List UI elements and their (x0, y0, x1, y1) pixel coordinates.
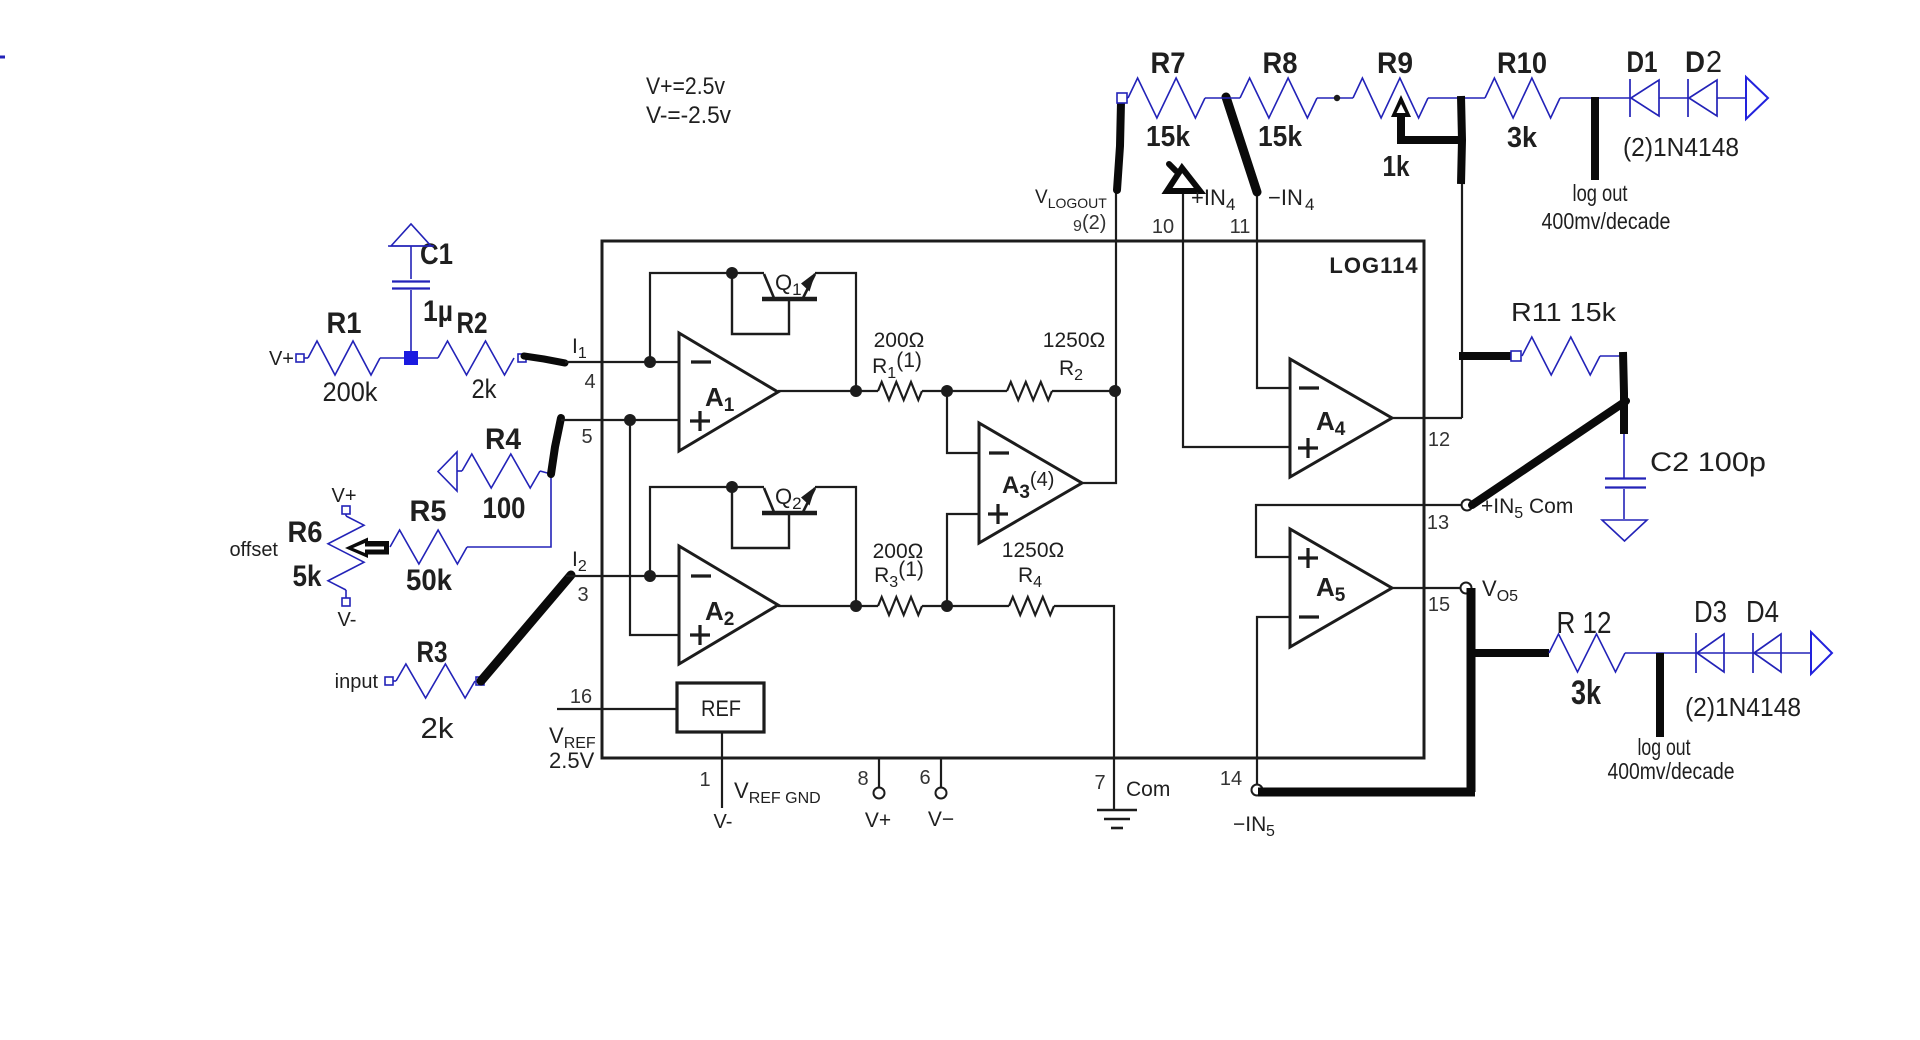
svg-text:log out: log out (1638, 734, 1691, 760)
transistor Q2 (762, 511, 817, 516)
svg-text:3: 3 (577, 584, 588, 606)
svg-text:(2)1N4148: (2)1N4148 (1685, 692, 1801, 722)
svg-text:13: 13 (1427, 512, 1449, 534)
power V+ arrow (above C1) (391, 224, 431, 246)
wire (418, 357, 438, 359)
svg-text:4: 4 (584, 371, 595, 393)
wire (947, 391, 979, 453)
svg-text:15k: 15k (1258, 121, 1303, 153)
diode D1 (1629, 79, 1631, 117)
resistor R3 (396, 664, 475, 698)
resistor R2 (1250 ohm internal) (1007, 382, 1052, 400)
svg-text:V-: V- (338, 609, 357, 631)
svg-text:−IN: −IN (1268, 185, 1303, 210)
node junction (1109, 385, 1121, 397)
svg-text:+IN: +IN (1191, 185, 1226, 210)
resistor R8 (1240, 78, 1317, 118)
svg-text:I2: I2 (572, 548, 587, 575)
wire (1127, 97, 1128, 99)
svg-text:5: 5 (581, 426, 592, 448)
svg-text:2: 2 (1706, 44, 1722, 79)
svg-text:VLOGOUT: VLOGOUT (1035, 187, 1107, 211)
node junction (850, 385, 862, 397)
node junction (644, 356, 656, 368)
svg-text:R5: R5 (410, 495, 447, 528)
svg-text:offset: offset (229, 539, 278, 561)
svg-text:2k: 2k (472, 374, 497, 404)
svg-text:I1: I1 (572, 335, 587, 362)
svg-text:2k: 2k (421, 713, 455, 745)
wire (1183, 241, 1290, 447)
svg-text:R2: R2 (457, 307, 488, 340)
svg-text:R1(1): R1(1) (872, 349, 922, 382)
potentiometer R6 (345, 514, 347, 516)
svg-text:1µ: 1µ (423, 295, 453, 328)
wire (1560, 97, 1630, 99)
wire (1625, 652, 1812, 654)
wire (815, 487, 856, 606)
svg-text:D1: D1 (1627, 46, 1658, 79)
wire (922, 390, 1007, 392)
svg-text:V+: V+ (865, 809, 891, 832)
wire (1659, 97, 1688, 99)
potentiometer R9 (1353, 78, 1428, 118)
node junction (726, 481, 738, 493)
svg-text:14: 14 (1220, 768, 1242, 790)
svg-text:input: input (335, 671, 379, 693)
svg-text:R11 15k: R11 15k (1511, 297, 1617, 327)
wire R6 wiper arrow (345, 538, 389, 559)
svg-text:5k: 5k (293, 560, 322, 593)
svg-text:V+=2.5v: V+=2.5v (646, 73, 725, 100)
wire (721, 732, 723, 808)
wire (1623, 489, 1625, 519)
node output arrow terminal (1811, 632, 1832, 674)
node R4 left arrow terminal (438, 452, 457, 491)
svg-text:A3(4): A3(4) (1002, 469, 1054, 503)
IC LOG114 outline (602, 241, 1424, 758)
wire (524, 356, 565, 363)
svg-text:9: 9 (1073, 218, 1082, 235)
REF block (677, 683, 764, 732)
svg-text:10: 10 (1152, 216, 1174, 238)
wire (1257, 617, 1290, 785)
svg-text:REF: REF (701, 696, 741, 721)
node R1-R2-C1 junction (404, 351, 418, 365)
svg-text:4: 4 (1305, 195, 1314, 214)
wire (1472, 401, 1626, 505)
resistor R3 (200 ohm internal) (878, 597, 922, 615)
wire (551, 418, 561, 474)
svg-text:V-=-2.5v: V-=-2.5v (646, 102, 731, 129)
diode D2 (1687, 79, 1689, 117)
svg-text:3k: 3k (1507, 122, 1538, 154)
svg-text:LOG114: LOG114 (1329, 253, 1418, 278)
svg-text:15k: 15k (1146, 121, 1191, 153)
svg-text:V-: V- (714, 811, 733, 833)
wire (1082, 391, 1116, 483)
node pin 6 V- (940, 758, 942, 787)
svg-text:D: D (1685, 46, 1705, 79)
wire (304, 357, 308, 359)
wire (650, 487, 764, 576)
wire R9 wiper arrow (1397, 112, 1405, 143)
svg-text:7: 7 (1094, 772, 1105, 794)
svg-text:100: 100 (483, 492, 526, 525)
wire (1717, 97, 1746, 99)
svg-text:Q2: Q2 (775, 484, 802, 513)
node junction (941, 600, 953, 612)
node junction (726, 267, 738, 279)
svg-text:R2: R2 (1059, 357, 1083, 384)
op-amp A4 (1290, 359, 1392, 477)
svg-text:+IN5 Com: +IN5 Com (1481, 495, 1573, 522)
svg-text:R3: R3 (417, 636, 448, 669)
svg-text:A2: A2 (705, 596, 734, 630)
node junction (941, 385, 953, 397)
svg-text:(2): (2) (1082, 212, 1106, 234)
wire (732, 492, 789, 548)
diode D3 (1695, 633, 1697, 673)
wire (1257, 241, 1290, 388)
wire (1461, 96, 1462, 184)
capacitor C1 (392, 280, 430, 282)
wire (1623, 352, 1624, 434)
svg-text:R6: R6 (288, 516, 323, 549)
wire (1256, 192, 1258, 241)
svg-text:400mv/decade: 400mv/decade (1608, 758, 1735, 784)
svg-text:3k: 3k (1571, 674, 1601, 712)
svg-text:200k: 200k (323, 377, 378, 407)
svg-text:(2)1N4148: (2)1N4148 (1623, 132, 1739, 162)
resistor R12 (1549, 634, 1625, 672)
wire (1182, 190, 1184, 241)
wire (410, 290, 412, 351)
svg-text:1: 1 (699, 769, 710, 791)
wire (1115, 191, 1117, 391)
node V- terminal (R6 bottom) (342, 598, 350, 606)
transistor Q1 (762, 297, 817, 302)
wire (1117, 102, 1121, 190)
wire (481, 575, 571, 681)
svg-text:A4: A4 (1316, 406, 1346, 440)
node R11 input terminal (1511, 351, 1521, 361)
wire (1205, 97, 1240, 99)
wire (1054, 606, 1114, 758)
resistor R4 (1250 ohm internal) (1009, 597, 1054, 615)
svg-text:400mv/decade: 400mv/decade (1542, 208, 1671, 234)
svg-text:Com: Com (1126, 778, 1170, 801)
resistor R10 (1485, 78, 1560, 118)
node junction (850, 600, 862, 612)
svg-text:R8: R8 (1263, 47, 1298, 80)
wire (947, 514, 979, 606)
svg-text:1250Ω: 1250Ω (1002, 539, 1064, 562)
wire (732, 278, 789, 334)
svg-text:2.5V: 2.5V (549, 748, 595, 773)
wire (1392, 417, 1462, 419)
svg-text:R4: R4 (1018, 564, 1042, 591)
svg-text:1k: 1k (1383, 151, 1411, 183)
wire (410, 246, 412, 279)
svg-text:R9: R9 (1377, 47, 1413, 80)
wire (565, 361, 679, 363)
node R2 output terminal (518, 354, 526, 362)
wire (778, 605, 878, 607)
resistor R5 (390, 530, 467, 564)
svg-text:VREF GND: VREF GND (734, 778, 821, 807)
wire (1467, 588, 1476, 792)
wire (566, 575, 679, 577)
op-amp A2 (679, 546, 778, 664)
resistor R1 (308, 341, 380, 375)
svg-text:8: 8 (857, 768, 868, 790)
svg-text:R4: R4 (485, 423, 521, 456)
svg-text:C2 100p: C2 100p (1650, 447, 1766, 477)
op-amp A1 (679, 333, 778, 451)
wire (1623, 434, 1625, 478)
wire (540, 471, 551, 474)
svg-text:R 12: R 12 (1557, 605, 1612, 640)
node junction (644, 570, 656, 582)
svg-text:16: 16 (570, 686, 592, 708)
wire (561, 419, 679, 421)
svg-text:R10: R10 (1497, 47, 1547, 80)
svg-text:5: 5 (1266, 823, 1275, 840)
svg-text:1250Ω: 1250Ω (1043, 329, 1105, 352)
wire (557, 708, 677, 710)
wire (1600, 355, 1624, 357)
svg-text:log out: log out (1573, 180, 1628, 206)
op-amp A3 (979, 423, 1082, 543)
wire (1428, 97, 1485, 99)
svg-text:A5: A5 (1316, 572, 1346, 606)
node +IN5 Com terminal (1462, 500, 1473, 511)
wire (1226, 97, 1257, 192)
svg-text:D3: D3 (1694, 594, 1727, 629)
wire (1459, 352, 1511, 360)
resistor R2 (438, 341, 514, 375)
node pin 8 V+ (878, 758, 880, 787)
wire (1258, 788, 1475, 797)
svg-text:R1: R1 (327, 307, 362, 340)
node R7 input terminal (1117, 93, 1127, 103)
wire (393, 680, 396, 682)
wire (0, 56, 5, 59)
svg-text:D4: D4 (1746, 594, 1779, 629)
svg-text:4: 4 (1226, 195, 1235, 214)
node junction (624, 414, 636, 426)
svg-text:V+: V+ (269, 348, 294, 370)
capacitor C2 (1605, 477, 1646, 479)
svg-text:6: 6 (919, 767, 930, 789)
node output arrow terminal (1746, 77, 1768, 119)
wire log out tap (1591, 97, 1599, 180)
wire (1471, 649, 1549, 657)
ground (pin 7) (1097, 809, 1137, 812)
wire log out tap (1656, 653, 1664, 737)
svg-text:Q1: Q1 (775, 270, 802, 299)
node R3 output terminal (476, 677, 484, 685)
wire (1392, 587, 1460, 589)
wire (815, 273, 856, 391)
svg-text:V+: V+ (331, 485, 356, 507)
svg-text:R7: R7 (1151, 47, 1186, 80)
wire (1113, 758, 1115, 810)
wire (380, 357, 405, 359)
diode D4 (1752, 633, 1754, 673)
wire (922, 605, 1009, 607)
wire (467, 474, 551, 547)
op-amp A5 (1290, 529, 1392, 647)
svg-text:15: 15 (1428, 594, 1450, 616)
ground (C2) (1602, 520, 1647, 541)
svg-text:−IN: −IN (1233, 813, 1266, 836)
wire (1052, 390, 1116, 392)
resistor R1 (200 ohm internal) (878, 382, 922, 400)
svg-text:VO5: VO5 (1482, 576, 1518, 605)
svg-text:A1: A1 (705, 382, 735, 416)
node junction (1334, 95, 1340, 101)
svg-text:V−: V− (928, 808, 954, 831)
svg-text:11: 11 (1230, 216, 1251, 238)
svg-text:12: 12 (1428, 429, 1450, 451)
resistor R11 (1522, 337, 1600, 375)
node +IN4 arrow (1167, 168, 1200, 191)
wire (630, 420, 679, 635)
svg-text:C1: C1 (420, 238, 453, 271)
resistor R7 (1128, 78, 1205, 118)
wire (778, 390, 878, 392)
wire (1317, 97, 1353, 99)
svg-text:50k: 50k (406, 564, 452, 597)
wire (650, 273, 764, 362)
resistor R4 (462, 454, 540, 488)
wire (1256, 505, 1461, 557)
wire (1461, 184, 1463, 418)
